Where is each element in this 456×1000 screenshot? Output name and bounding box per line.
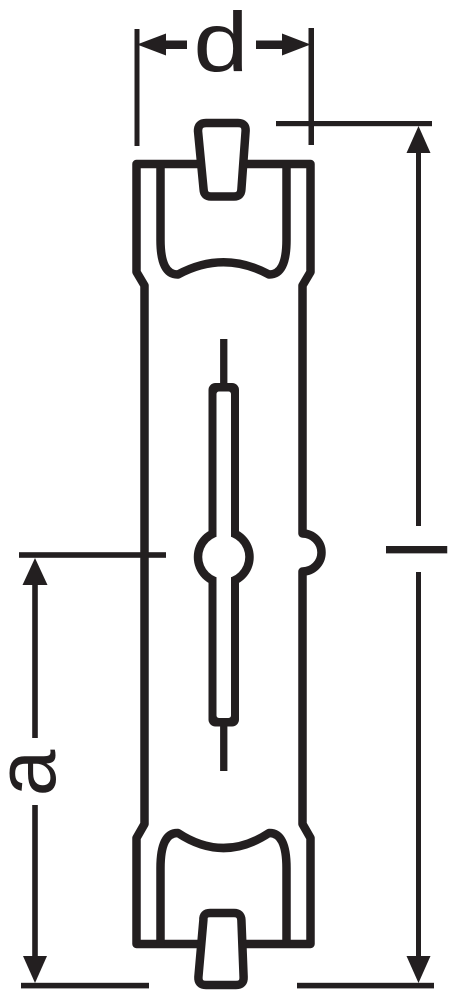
bottom contact pin	[198, 913, 243, 985]
top contact pin	[198, 123, 246, 197]
svg-text:a: a	[0, 749, 73, 796]
arc tube bulge interior	[202, 536, 245, 579]
dimension line a (left vertical)	[23, 558, 48, 983]
reference line top for l	[276, 121, 432, 126]
reference line for a	[19, 552, 166, 558]
arc tube interior (white union)	[217, 392, 232, 719]
dimension d left arrow	[137, 34, 187, 56]
bottom cap inner seal	[161, 833, 287, 944]
top cap inner seal	[161, 164, 287, 275]
reference line bottom right	[297, 983, 434, 989]
extension line right of d	[309, 28, 315, 145]
svg-text:d: d	[193, 0, 248, 89]
lower lead wire	[220, 718, 227, 771]
extension line left of d	[135, 29, 140, 146]
reference line bottom left	[21, 983, 149, 989]
upper lead wire	[220, 339, 227, 391]
arc tube body (black union)	[209, 383, 240, 727]
lamp outer bulb outline	[137, 164, 322, 944]
svg-text:l: l	[371, 540, 456, 559]
dimension d right arrow	[256, 34, 311, 56]
dimension line l (right vertical)	[407, 126, 431, 983]
arc tube bulge outer	[194, 527, 254, 587]
